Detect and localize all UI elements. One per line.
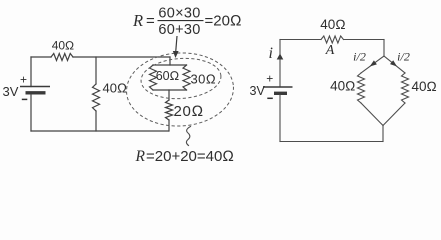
svg-text:i/2: i/2	[397, 50, 410, 64]
arrow from equation to parallel pair	[176, 36, 177, 52]
wire: diamond bottom node down to bottom rail	[382, 126, 384, 142]
wire: stub from parallel pair to 20ohm	[168, 90, 170, 100]
resistor R 60ohm	[150, 65, 157, 90]
svg-text:40Ω: 40Ω	[103, 81, 127, 96]
wire: middle branch upper stub	[95, 57, 97, 84]
svg-text:+: +	[20, 73, 27, 87]
svg-text:R: R	[135, 148, 146, 164]
wire: left circuit left side lower	[30, 95, 32, 132]
svg-text:20Ω: 20Ω	[174, 103, 204, 120]
resistor R 40ohm top-left	[51, 54, 73, 61]
resistor R 30ohm	[183, 65, 190, 90]
wire: right circuit top rail	[280, 39, 384, 41]
wire: left circuit bottom rail	[31, 130, 169, 132]
wire: left circuit top rail	[31, 56, 170, 58]
dashed inner oval around 60||30	[140, 56, 223, 101]
resistor R 40ohm diamond left	[358, 73, 365, 103]
svg-text:40Ω: 40Ω	[52, 39, 75, 53]
battery B2 3V (right circuit)	[263, 86, 293, 88]
svg-text:=: =	[146, 13, 155, 30]
svg-text:+: +	[266, 72, 273, 86]
svg-text:i: i	[269, 45, 273, 62]
svg-text:40Ω: 40Ω	[320, 17, 345, 32]
wire: right circuit left side lower	[279, 95, 281, 142]
resistor R 40ohm right-top	[321, 36, 344, 43]
resistor R 40ohm middle branch	[93, 84, 100, 111]
svg-text:60+30: 60+30	[158, 22, 200, 38]
dashed outer oval around series group	[125, 50, 236, 128]
wire: stub from top rail into parallel pair	[169, 57, 171, 65]
svg-text:=20+20=40Ω: =20+20=40Ω	[146, 148, 234, 164]
wire: right circuit bottom rail	[280, 141, 383, 143]
current arrow i/2 (right)	[390, 60, 397, 66]
svg-text:=20Ω: =20Ω	[205, 13, 242, 30]
svg-text:A: A	[325, 43, 335, 58]
wire: diamond lower-right slant	[383, 103, 405, 126]
polarity - (right battery)	[267, 97, 273, 99]
resistor R 40ohm diamond right	[402, 73, 409, 103]
current arrow i/2 (left)	[370, 60, 377, 66]
wire: diamond upper-right slant	[384, 56, 405, 73]
svg-text:40Ω: 40Ω	[412, 79, 437, 94]
wire: left circuit left side upper	[30, 57, 32, 87]
wire: right corner down to diamond top node	[383, 40, 385, 57]
squiggle callout to bottom equation	[186, 127, 190, 146]
svg-text:40Ω: 40Ω	[330, 79, 355, 94]
wire: middle branch lower stub	[95, 111, 97, 131]
resistor R 20ohm	[166, 100, 173, 120]
wire: 20ohm down to bottom rail	[168, 120, 170, 131]
battery B1 3V (left circuit)	[20, 86, 50, 88]
wire: diamond lower-left slant	[361, 103, 383, 126]
svg-text:60Ω: 60Ω	[156, 69, 180, 83]
svg-text:3V: 3V	[250, 84, 266, 98]
equation R = 60x30/60+30 = 20ohm	[132, 5, 241, 38]
svg-text:30Ω: 30Ω	[191, 72, 217, 87]
current arrow i (up)	[277, 54, 284, 60]
wire: diamond upper-left slant	[361, 56, 384, 73]
svg-text:3V: 3V	[3, 84, 19, 99]
svg-text:R: R	[132, 11, 143, 30]
wire: parallel pair bottom rail	[153, 89, 187, 91]
svg-text:i/2: i/2	[353, 50, 366, 64]
svg-text:60×30: 60×30	[158, 5, 200, 21]
wire: right circuit left side upper	[279, 40, 281, 88]
wire: parallel pair top rail	[153, 64, 187, 66]
polarity - (left battery)	[22, 98, 28, 100]
